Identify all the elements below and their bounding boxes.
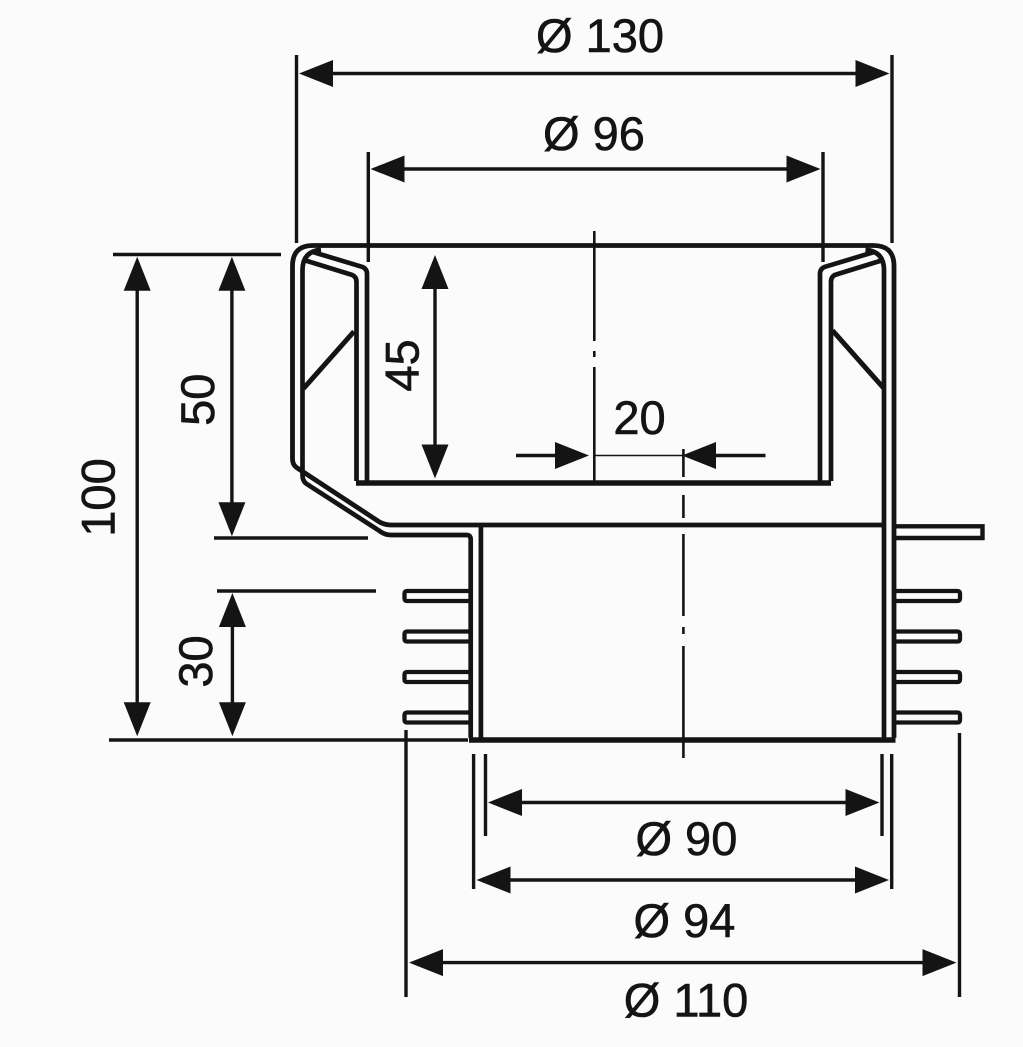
dia96 arrowhead right <box>787 156 821 183</box>
dim20 arrowhead left <box>555 442 589 469</box>
right rib 3 <box>894 672 960 682</box>
dim30 arrowhead bottom <box>219 702 246 736</box>
bottom baseline extension <box>109 738 468 741</box>
lower centerline <box>682 495 685 758</box>
bottom tick line for 50 <box>214 536 368 539</box>
dia90 extension line left <box>484 754 487 836</box>
dia96 dimension line <box>400 167 790 170</box>
dia110 extension line right <box>958 733 961 997</box>
dia94 dimension line <box>506 878 860 881</box>
dia94 extension line right <box>890 754 893 889</box>
left inner sleeve wall: chamfer + inner line <box>313 252 367 481</box>
dia130 arrowhead right <box>856 60 890 87</box>
dia90 arrowhead right <box>846 789 880 816</box>
dim45 arrowhead bottom <box>422 445 449 479</box>
svg-text:50: 50 <box>171 374 224 426</box>
right cavity diagonal slit <box>833 331 885 389</box>
dia130 extension line left <box>295 55 298 243</box>
svg-text:Ø 94: Ø 94 <box>634 894 736 947</box>
dim45 dimension line <box>433 286 436 448</box>
dia110 dimension line <box>438 961 926 964</box>
dia110 arrowhead right <box>923 949 957 976</box>
dim50 arrowhead bottom <box>218 502 245 536</box>
top tick line for 30 <box>217 589 376 592</box>
dia90 arrowhead left <box>488 789 522 816</box>
dia96 arrowhead left <box>371 156 405 183</box>
dia90 dimension line <box>518 801 850 804</box>
dia94 arrowhead left <box>477 867 511 894</box>
dim20 dimension line left segment <box>516 454 558 457</box>
cylinder left inner wall <box>479 526 484 738</box>
dia90 extension line right <box>880 754 883 836</box>
svg-text:30: 30 <box>169 635 222 687</box>
dim50 arrowhead top <box>218 257 245 291</box>
svg-text:20: 20 <box>613 391 665 444</box>
dia94 arrowhead right <box>855 867 889 894</box>
left rib 4 <box>405 713 473 723</box>
left cavity diagonal slit <box>304 332 355 389</box>
cylinder bottom <box>469 737 896 742</box>
right rib 1 <box>894 591 960 601</box>
dim45 arrowhead top <box>422 255 449 289</box>
svg-text:Ø 96: Ø 96 <box>543 107 645 160</box>
dim100 arrowhead top <box>124 257 151 291</box>
svg-text:Ø 130: Ø 130 <box>536 9 664 62</box>
dim50 dimension line <box>230 288 233 505</box>
inner surface of outer wall (left) + step bottom + cylinder left outer wall <box>303 250 471 738</box>
right inner sleeve wall: chamfer + outer line <box>831 261 882 482</box>
dim30 dimension line <box>231 625 234 704</box>
dim20 dimension line right segment <box>713 454 766 457</box>
outer contour: flange top + left outer wall + cup rim top + right outer wall <box>293 246 895 738</box>
right rib 4 <box>894 713 960 723</box>
svg-text:Ø 110: Ø 110 <box>624 974 749 1027</box>
dim20 dimension line middle thin segment <box>594 455 684 457</box>
right rib 2 <box>894 632 960 642</box>
dim100 arrowhead bottom <box>124 702 151 736</box>
dim20 tick on lower axis <box>682 449 685 477</box>
svg-text:Ø 90: Ø 90 <box>635 812 737 865</box>
dia96 extension line left <box>367 152 370 262</box>
dia110 arrowhead left <box>409 949 443 976</box>
dim100 dimension line <box>135 288 138 705</box>
svg-text:100: 100 <box>72 458 125 536</box>
left rib 1 <box>405 591 473 601</box>
left rib 2 <box>405 632 473 642</box>
dia130 extension line right <box>890 55 893 243</box>
dia96 extension line right <box>821 152 824 262</box>
left inner sleeve wall: chamfer + outer line <box>306 261 357 482</box>
inner surface of outer wall (right) down to cylinder bottom <box>866 250 885 738</box>
right tab flange <box>892 526 983 538</box>
left rib 3 <box>405 672 473 682</box>
svg-text:45: 45 <box>376 339 429 391</box>
dim20 arrowhead right <box>682 442 716 469</box>
right inner sleeve wall: chamfer + inner line <box>820 252 874 481</box>
dia130 arrowhead left <box>299 60 333 87</box>
top tick line for 100 and 50 <box>113 253 281 256</box>
dia130 dimension line <box>328 72 860 75</box>
dim30 arrowhead top <box>219 593 246 627</box>
dia94 extension line left <box>472 754 475 889</box>
upper centerline <box>593 231 596 483</box>
dia110 extension line left <box>404 730 407 997</box>
cup floor <box>356 480 831 485</box>
